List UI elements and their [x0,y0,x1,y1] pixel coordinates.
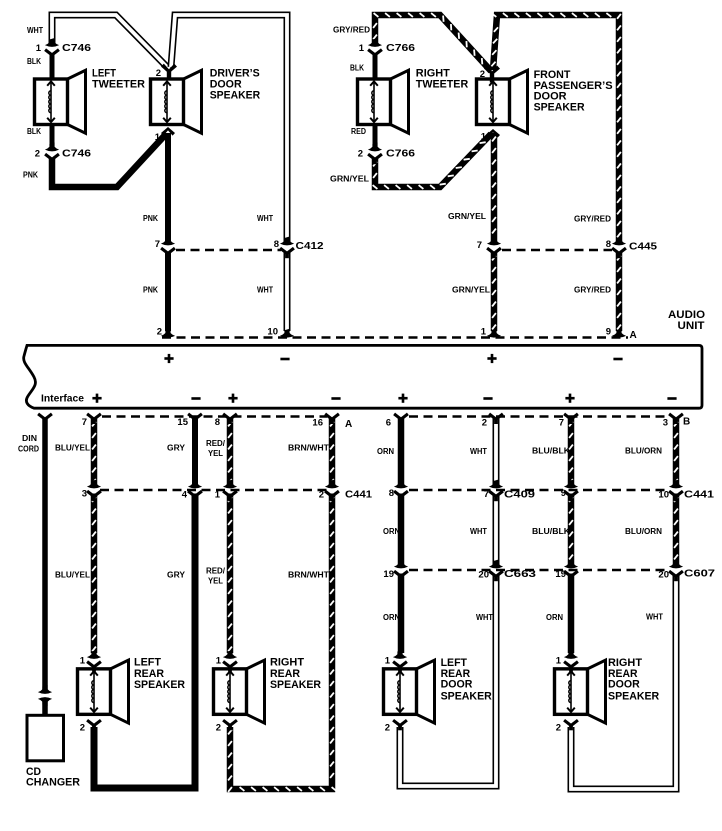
svg-text:GRN/YEL: GRN/YEL [448,212,486,221]
left rear speaker pin 2 terminal [87,720,101,730]
connector C445 dashed line [502,249,612,251]
svg-text:ORN: ORN [383,613,400,622]
svg-text:A: A [345,419,352,430]
speaker driver's door [151,70,202,133]
svg-text:BLU/YEL: BLU/YEL [55,571,90,580]
svg-text:RED: RED [351,127,366,136]
svg-text:YEL: YEL [208,577,223,586]
svg-text:19: 19 [555,569,566,580]
wire DIN cord from audio unit to inline connector [42,418,48,691]
audio unit lower connector dashed line left (A) [102,415,327,417]
svg-text:2: 2 [156,68,161,79]
svg-text:TWEETER: TWEETER [92,79,145,91]
svg-text:C663: C663 [504,569,537,580]
svg-text:C412: C412 [296,241,325,252]
wire GRN/YEL from C766 pin 2 to passenger's door speaker pin 1 [373,134,491,189]
connector C412 pin 7 [161,237,175,259]
svg-text:WHT: WHT [257,286,273,295]
audio unit pin 6 terminal (B) [394,414,408,424]
svg-text:2: 2 [319,490,324,501]
audio unit pin 15 terminal (A) [188,414,202,424]
svg-text:3: 3 [663,418,668,429]
svg-text:7: 7 [155,239,160,250]
wire ORN from C663 pin 19 to left rear door speaker pin 1 [398,574,405,654]
svg-text:20: 20 [478,570,489,581]
svg-text:A: A [630,330,637,341]
svg-text:1: 1 [80,656,86,667]
audio unit pin 16 terminal (A) [325,414,339,424]
svg-text:1: 1 [359,43,365,54]
svg-text:1: 1 [155,132,161,143]
svg-text:WHT: WHT [646,613,663,622]
svg-text:C409: C409 [504,490,536,501]
svg-text:ORN: ORN [377,447,394,456]
svg-text:C766: C766 [386,148,416,159]
wire BLU/ORN from audio unit pin 3 to C441 pin 10 [674,418,678,487]
svg-text:Interface: Interface [41,393,84,405]
left rear speaker pin 1 terminal [87,650,101,672]
connector C409/C441 dashed line right [409,489,669,491]
connector C441 pin 9 [564,480,578,502]
svg-text:BLU/BLK: BLU/BLK [532,447,570,456]
interface plus 1 [92,394,101,403]
speaker left rear [78,660,129,723]
svg-text:9: 9 [561,488,566,499]
left rear door speaker pin 1 terminal [393,650,407,672]
svg-text:REAR: REAR [270,668,300,680]
wire BLU/BLK from audio unit pin 7 to C441 pin 9 [569,418,573,487]
svg-text:4: 4 [182,490,188,501]
svg-text:6: 6 [386,418,391,429]
wire GRN/YEL from C445 pin 7 to audio unit pin 1 [492,252,496,331]
svg-text:BLU/BLK: BLU/BLK [532,527,570,536]
connector C663 pin 20 [489,560,503,582]
svg-text:2: 2 [482,418,487,429]
svg-text:8: 8 [274,239,279,250]
interface plus 3 [398,394,407,403]
svg-text:1: 1 [556,656,562,667]
svg-text:GRY/RED: GRY/RED [333,26,370,35]
wire ORN from C409 pin 8 to C663 pin 19 [398,494,405,567]
svg-text:ORN: ORN [383,527,400,536]
wire WHT from C409 pin 7 to C663 pin 20 [493,494,500,567]
connector C663/C607 dashed line [409,569,669,571]
svg-text:UNIT: UNIT [678,320,706,332]
wire RED right tweeter negative (to C766 pin 2) [373,123,378,147]
wire PNK from C746 pin 2 to driver's door speaker pin 1 [52,134,166,187]
svg-text:2: 2 [358,148,363,159]
svg-text:RED/: RED/ [206,567,226,576]
passenger's door speaker pin 1 terminal [486,129,500,138]
svg-text:BLK: BLK [350,64,364,73]
svg-text:BLU/YEL: BLU/YEL [55,444,90,453]
interface minus 1 [191,397,200,400]
svg-text:C441: C441 [345,490,372,501]
svg-text:DIN: DIN [22,434,37,443]
svg-text:2: 2 [216,722,221,733]
svg-text:WHT: WHT [470,447,487,456]
passenger's door speaker pin 2 terminal [484,66,500,83]
connector C441 pin 3 [87,480,101,502]
svg-text:BLK: BLK [27,57,41,66]
wire BLK left tweeter positive [50,53,55,80]
connector C607 pin 19 [564,560,578,582]
wire ORN from audio unit pin 6 to C409 pin 8 [398,418,405,487]
wire ORN from C607 pin 19 to right rear door speaker pin 1 [568,574,575,654]
svg-text:WHT: WHT [476,613,493,622]
svg-text:1: 1 [385,656,391,667]
svg-text:GRY/RED: GRY/RED [574,215,611,224]
speaker right rear [214,660,265,723]
wire DIN cord from inline connector to CD changer [42,700,48,717]
audio unit top row minus (right channel) [613,358,622,361]
svg-text:C607: C607 [684,569,716,580]
speaker right tweeter [358,70,409,133]
svg-text:SPEAKER: SPEAKER [534,101,585,113]
wire PNK from C412 pin 7 to audio unit pin 2 [165,252,171,331]
svg-text:2: 2 [480,69,485,80]
right rear speaker pin 2 terminal [223,720,237,730]
connector C409 pin 8 [394,480,408,502]
svg-text:BRN/WHT: BRN/WHT [288,571,329,580]
wire WHT from audio unit pin 2 to C409 pin 7 [493,418,500,487]
svg-text:SPEAKER: SPEAKER [134,679,185,691]
svg-text:GRN/YEL: GRN/YEL [330,175,369,184]
audio unit pin 3 terminal (B) [669,414,683,424]
svg-text:WHT: WHT [470,527,487,536]
svg-text:GRY: GRY [167,571,186,580]
connector C441 pin 4 [188,480,202,502]
svg-text:1: 1 [36,43,42,54]
svg-text:19: 19 [383,569,394,580]
connector C746 pin 2 [45,143,59,165]
DIN cord inline connector (mating pair) [38,685,52,706]
svg-text:BRN/WHT: BRN/WHT [288,444,329,453]
svg-text:2: 2 [157,327,162,338]
svg-text:2: 2 [556,722,561,733]
svg-text:16: 16 [312,418,323,429]
svg-text:9: 9 [606,327,611,338]
wire GRY/RED from C445 pin 8 to audio unit pin 9 [617,252,621,331]
svg-text:C445: C445 [629,242,658,253]
connector C412 dashed line [176,249,281,251]
svg-text:8: 8 [606,239,611,250]
svg-text:1: 1 [481,132,487,143]
svg-text:BLK: BLK [27,127,41,136]
svg-text:SPEAKER: SPEAKER [608,690,659,702]
wire WHT from C663 pin 20 looping to left rear door speaker pin 2 [400,574,496,787]
svg-text:GRY: GRY [167,444,186,453]
svg-text:DOOR: DOOR [608,679,640,691]
svg-text:10: 10 [658,490,669,501]
connector C412 pin 8 [280,237,294,259]
wire GRY from audio unit pin 15 to C441 pin 4 [192,418,198,487]
audio unit pin 10 terminal [280,329,294,338]
connector C746 pin 1 [45,38,59,60]
svg-text:TWEETER: TWEETER [416,79,469,91]
speaker right rear door [555,660,606,723]
audio unit top row plus (left channel) [164,354,173,363]
connector C445 pin 7 [487,237,501,259]
svg-text:SPEAKER: SPEAKER [270,679,321,691]
connector C445 pin 8 [612,237,626,259]
wire BLU/BLK from C441 pin 9 to C607 pin 19 [569,494,573,567]
svg-text:1: 1 [215,490,221,501]
svg-text:2: 2 [35,148,40,159]
audio unit pin 2 terminal [161,329,175,338]
wire GRY/RED from C766 pin 1 to passenger's door speaker pin 2 [373,13,491,71]
svg-text:CHANGER: CHANGER [26,777,80,789]
interface minus 2 [331,397,340,400]
connector C409 pin 7 [489,480,503,502]
audio unit pin 7 terminal (B) [564,414,578,424]
svg-text:BLU/ORN: BLU/ORN [625,447,662,456]
svg-text:7: 7 [477,240,482,251]
svg-text:2: 2 [80,722,85,733]
svg-text:B: B [683,417,690,428]
audio unit DIN cord terminal [38,414,52,424]
svg-text:2: 2 [385,722,390,733]
svg-text:3: 3 [82,489,87,500]
svg-text:20: 20 [658,570,669,581]
audio unit pin 7 terminal (A) [87,414,101,424]
wire WHT from driver's door speaker pin 2 to C412 pin 8 [171,15,287,243]
svg-text:PNK: PNK [23,171,38,180]
interface minus 3 [483,397,492,400]
svg-text:1: 1 [481,327,487,338]
svg-text:C441: C441 [684,490,715,501]
svg-text:10: 10 [267,327,278,338]
audio unit connector dashed line (top row) [162,336,628,338]
right rear speaker pin 1 terminal [223,650,237,672]
svg-text:ORN: ORN [546,613,563,622]
svg-text:GRN/YEL: GRN/YEL [452,286,490,295]
wire BLK right tweeter positive [373,53,378,80]
connector C663 pin 19 [394,560,408,582]
connector C441 dashed line left [100,489,327,491]
svg-text:SPEAKER: SPEAKER [441,690,492,702]
connector C766 pin 2 [368,143,382,165]
svg-text:7: 7 [559,418,564,429]
audio unit lower connector dashed line right (B) [409,415,669,417]
svg-text:15: 15 [177,417,188,428]
svg-text:YEL: YEL [208,449,223,458]
right rear door speaker pin 1 terminal [564,650,578,672]
wire BRN/WHT from audio unit pin 16 to C441 pin 2 [330,418,334,487]
wire WHT from C412 pin 8 to audio unit pin 10 [284,252,291,331]
wire GRY/RED from passenger's door speaker pin 2 to C445 pin 8 [491,13,621,243]
wire BLK left tweeter negative (to C746 pin 2) [50,123,55,147]
svg-text:C746: C746 [62,43,92,54]
wire BLU/YEL from audio unit pin 7 to C441 pin 3 [92,418,96,487]
wire WHT from C607 pin 20 looping to right rear door speaker pin 2 [571,574,676,790]
interface minus 4 [667,397,676,400]
right rear door speaker pin 2 terminal [564,720,578,730]
audio unit top row plus (right channel) [487,354,496,363]
speaker front passenger's door [477,70,528,133]
svg-text:8: 8 [389,488,394,499]
connector C441 pin 1 [223,480,237,502]
connector C441 pin 2 [325,480,339,502]
wire GRY from C441 pin 4 looping to left rear speaker pin 2 [94,494,195,789]
audio unit pin 2 terminal (B) [489,414,503,424]
svg-text:SPEAKER: SPEAKER [210,90,261,102]
svg-text:C746: C746 [62,148,92,159]
svg-text:BLU/ORN: BLU/ORN [625,527,662,536]
CD changer box [27,715,64,761]
connector C766 pin 1 [368,38,382,60]
wire GRN/YEL from passenger's door speaker pin 1 to C445 pin 7 [492,133,496,243]
audio unit pin 1 terminal [487,329,501,338]
audio unit pin 8 terminal (A) [223,414,237,424]
svg-text:7: 7 [82,417,87,428]
svg-text:8: 8 [215,417,220,428]
wire PNK from driver's door speaker pin 1 to C412 pin 7 [165,133,171,243]
svg-text:PNK: PNK [143,286,158,295]
connector C441 pin 10 [669,480,683,502]
speaker left tweeter [35,70,86,133]
svg-text:7: 7 [484,489,489,500]
wire RED/YEL from audio unit pin 8 to C441 pin 1 [228,418,232,487]
wire WHT from C746 pin 1 to driver's door speaker pin 2 [52,15,169,69]
interface plus 4 [565,394,574,403]
svg-text:PNK: PNK [143,214,158,223]
driver's door speaker pin 1 terminal [161,127,175,136]
svg-text:GRY/RED: GRY/RED [574,286,611,295]
wire BLU/ORN from C441 pin 10 to C607 pin 20 [674,494,678,567]
interface plus 2 [228,394,237,403]
audio unit box with torn left edge [24,345,702,408]
svg-text:REAR: REAR [134,668,164,680]
svg-text:CORD: CORD [18,445,39,454]
svg-text:WHT: WHT [257,214,273,223]
svg-text:C766: C766 [386,43,416,54]
svg-text:DOOR: DOOR [441,679,473,691]
driver's door speaker pin 2 terminal [161,64,177,81]
left rear door speaker pin 2 terminal [393,720,407,730]
svg-text:RED/: RED/ [206,439,226,448]
speaker left rear door [384,660,435,723]
audio unit pin 9 terminal [612,329,626,338]
wire RED/YEL from C441 pin 1 to right rear speaker pin 1 [228,494,232,654]
wire BLU/YEL from C441 pin 3 to left rear speaker pin 1 [92,494,96,654]
audio unit top row minus (left channel) [280,358,289,361]
svg-text:1: 1 [216,656,222,667]
wire BRN/WHT from C441 pin 2 looping to right rear speaker pin 2 [228,494,336,792]
svg-text:WHT: WHT [27,26,43,35]
connector C607 pin 20 [669,560,683,582]
